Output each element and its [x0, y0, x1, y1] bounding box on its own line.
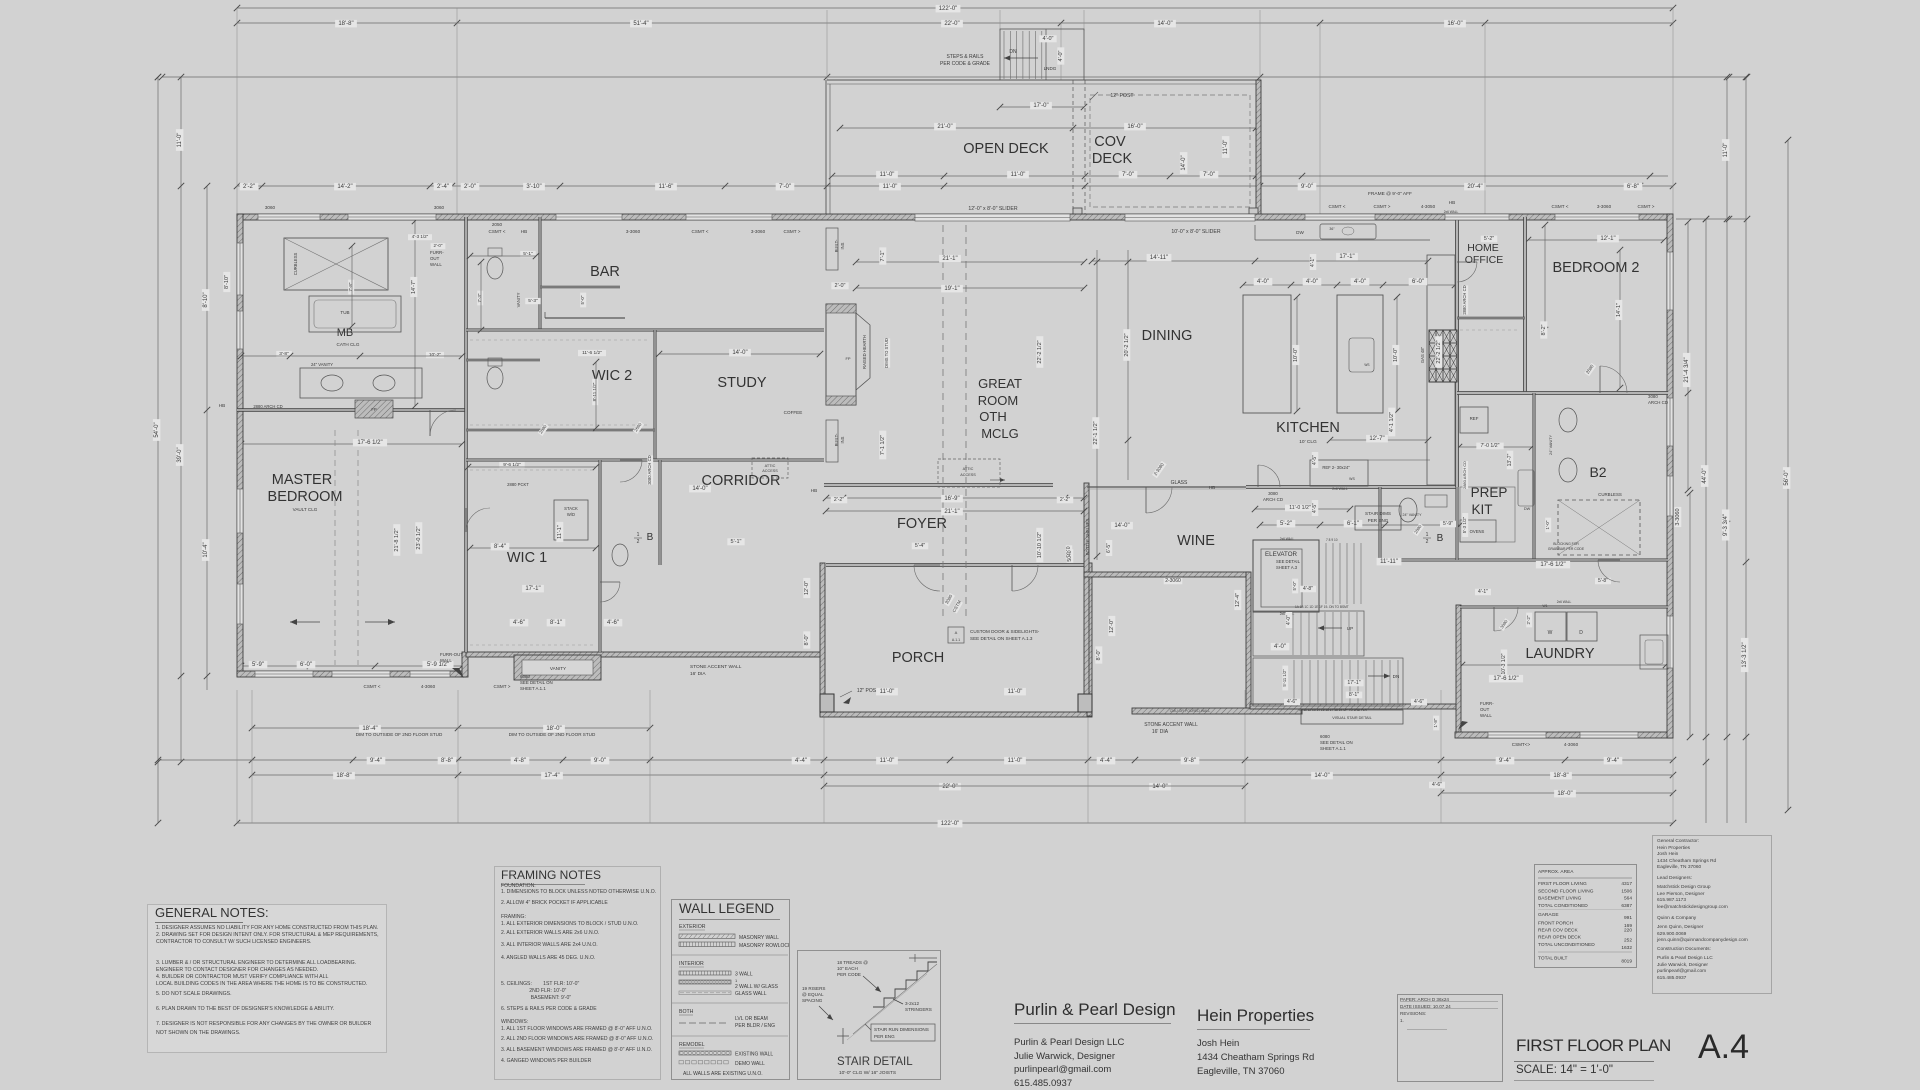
svg-text:2x6 WALL: 2x6 WALL	[1280, 537, 1295, 541]
svg-text:SHEET A.3: SHEET A.3	[1276, 565, 1298, 570]
svg-text:STAIR DIMS: STAIR DIMS	[1365, 511, 1391, 516]
fixture: fridge REF 2-30x24	[1310, 460, 1368, 486]
svg-text:21'-1": 21'-1"	[942, 256, 957, 262]
fixture: master shower with X	[284, 238, 388, 290]
svg-text:17'-1": 17'-1"	[1347, 680, 1360, 686]
svg-text:LVL OR BEAM: LVL OR BEAM	[735, 1016, 768, 1022]
svg-text:14'-0": 14'-0"	[1152, 784, 1167, 790]
svg-text:11'-0 1/2": 11'-0 1/2"	[1289, 505, 1311, 511]
svg-text:DW: DW	[1296, 230, 1304, 235]
svg-text:36": 36"	[1329, 227, 1335, 231]
approx area table	[1534, 864, 1638, 968]
misc right dims	[1595, 578, 1611, 585]
svg-text:4'-1": 4'-1"	[1310, 257, 1316, 267]
wall: corridor south (left wing)	[466, 652, 824, 657]
paper/date/revisions box	[1397, 994, 1503, 1082]
svg-text:10'-3 1/2": 10'-3 1/2"	[1501, 653, 1507, 674]
stair upper-left flight	[1325, 543, 1327, 604]
wall: master bedroom south	[237, 671, 466, 677]
svg-text:14'-0": 14'-0"	[1181, 155, 1187, 170]
fixture: prep sink + dw	[1518, 470, 1534, 506]
svg-text:6'-5": 6'-5"	[1106, 543, 1112, 553]
svg-text:HB: HB	[811, 488, 817, 493]
svg-text:OUT: OUT	[1480, 707, 1490, 712]
attic access corridor	[752, 458, 788, 478]
svg-text:12" POST: 12" POST	[1110, 93, 1134, 99]
svg-text:9'-0": 9'-0"	[594, 758, 606, 764]
vault direction arrows	[290, 621, 320, 623]
svg-text:REAR COV DECK: REAR COV DECK	[1538, 928, 1579, 934]
svg-text:12'-0": 12'-0"	[1109, 619, 1115, 633]
svg-text:19 RISERS: 19 RISERS	[802, 986, 826, 991]
svg-text:10'-2": 10'-2"	[429, 352, 442, 358]
stair runs	[1253, 611, 1364, 656]
svg-text:7'-1 1/2": 7'-1 1/2"	[880, 435, 886, 455]
svg-text:CMU OR POURED WALL: CMU OR POURED WALL	[1170, 709, 1211, 713]
svg-text:2x6 WALL: 2x6 WALL	[1444, 210, 1459, 214]
svg-text:3060: 3060	[434, 205, 445, 210]
windows: laundry south wall	[1488, 732, 1546, 738]
great room dims	[856, 261, 1084, 263]
left wing interior dim chain lines	[241, 443, 462, 445]
svg-text:1: 1	[1426, 532, 1429, 538]
svg-text:252: 252	[1624, 938, 1632, 944]
svg-text:FP: FP	[845, 356, 850, 361]
svg-text:WALL: WALL	[1480, 713, 1492, 718]
svg-text:4-3060: 4-3060	[421, 684, 436, 689]
svg-text:4'-0": 4'-0"	[1257, 279, 1269, 285]
svg-text:RAISED HEARTH: RAISED HEARTH	[862, 335, 867, 369]
svg-text:10'-0": 10'-0"	[1293, 348, 1299, 362]
svg-text:4'-0": 4'-0"	[1058, 50, 1064, 61]
svg-text:CURBLESS: CURBLESS	[1598, 492, 1622, 497]
wall: patio west (below wine)	[1084, 577, 1089, 710]
svg-text:REAR OPEN DECK: REAR OPEN DECK	[1538, 935, 1582, 941]
svg-text:22'-0": 22'-0"	[944, 21, 959, 27]
svg-text:8'-4": 8'-4"	[494, 544, 506, 550]
kitchen dining dim chain lines	[1092, 260, 1428, 262]
stair dims per eng box	[1355, 506, 1401, 530]
laundry dims	[1475, 589, 1491, 596]
svg-text:DW: DW	[1524, 507, 1531, 511]
fixture: master vanity two sinks	[300, 368, 422, 398]
svg-text:W: W	[1548, 630, 1553, 636]
svg-text:FIRST FLOOR LIVING: FIRST FLOOR LIVING	[1538, 881, 1587, 887]
wall: corridor north y=460	[466, 459, 824, 461]
svg-text:4'-8": 4'-8"	[514, 758, 526, 764]
svg-text:DN: DN	[1393, 674, 1400, 679]
svg-text:5'-2": 5'-2"	[1484, 236, 1494, 242]
svg-text:BEDROOM 2: BEDROOM 2	[1552, 260, 1639, 276]
svg-text:4'-0": 4'-0"	[1274, 644, 1286, 650]
open deck / cov deck outline	[827, 79, 1258, 81]
svg-text:4'-0": 4'-0"	[1306, 279, 1318, 285]
svg-text:21'-0": 21'-0"	[937, 124, 952, 130]
svg-text:11'-0": 11'-0"	[1011, 172, 1026, 178]
wall: porch south	[820, 712, 1092, 717]
dimension line: left vertical chain outer	[157, 77, 159, 823]
svg-text:UP: UP	[1347, 626, 1353, 631]
svg-text:10'-0" CLG W/ 16" JOISTS: 10'-0" CLG W/ 16" JOISTS	[839, 1070, 896, 1076]
svg-text:5'-9": 5'-9"	[1443, 521, 1453, 527]
right wing vertical dim bedroom2 east	[1433, 716, 1439, 731]
svg-text:2: 2	[1426, 539, 1429, 545]
svg-text:12'-7": 12'-7"	[1369, 436, 1384, 442]
svg-text:COFFEE: COFFEE	[784, 410, 803, 415]
svg-text:CSMT <: CSMT <	[489, 229, 506, 234]
wall: wic1 east x=600	[599, 460, 601, 652]
svg-text:DEMO WALL: DEMO WALL	[735, 1061, 765, 1067]
svg-text:14'-1": 14'-1"	[1616, 303, 1622, 317]
dimension line: top row 2 segments	[237, 22, 1673, 24]
svg-text:8'-0": 8'-0"	[1096, 649, 1102, 660]
svg-text:PORCH: PORCH	[892, 650, 944, 666]
general notes block	[147, 904, 387, 1053]
svg-text:SEE DETAIL ON SHEET A.1.3: SEE DETAIL ON SHEET A.1.3	[970, 636, 1033, 641]
dimension line: overall depth reference at y=77	[162, 76, 1747, 78]
svg-text:CSMT <: CSMT <	[1329, 204, 1346, 209]
svg-text:INS: INS	[840, 436, 845, 443]
svg-text:2'-4": 2'-4"	[437, 184, 449, 190]
svg-text:MASTER: MASTER	[272, 472, 332, 488]
svg-text:VANITY: VANITY	[550, 666, 566, 671]
svg-text:2'-2": 2'-2"	[834, 497, 844, 503]
svg-text:14'-0": 14'-0"	[1157, 21, 1172, 27]
svg-text:5'-4": 5'-4"	[915, 543, 925, 549]
svg-text:11'-0": 11'-0"	[1008, 689, 1023, 695]
svg-text:CURBLESS: CURBLESS	[293, 253, 298, 276]
svg-text:WALL: WALL	[430, 262, 442, 267]
svg-text:5'-0": 5'-0"	[1292, 581, 1297, 590]
svg-text:EXTERIOR: EXTERIOR	[679, 924, 706, 930]
svg-text:18'-0": 18'-0"	[1557, 791, 1572, 797]
svg-text:4'-0": 4'-0"	[1286, 615, 1292, 625]
svg-text:DIM TO OUTSIDE OF 2ND FLOOR ST: DIM TO OUTSIDE OF 2ND FLOOR STUD	[356, 732, 443, 737]
svg-text:3 WALL: 3 WALL	[735, 972, 753, 978]
svg-text:9'-8": 9'-8"	[1184, 758, 1196, 764]
wall: stair south	[1250, 704, 1457, 709]
svg-text:HB: HB	[1209, 485, 1215, 490]
dimension line: left vertical chain 2	[180, 77, 182, 762]
door arcs left wing	[430, 410, 456, 436]
svg-text:44'-0": 44'-0"	[1702, 468, 1708, 483]
svg-text:11'-1": 11'-1"	[557, 525, 563, 539]
svg-text:10" EACH: 10" EACH	[837, 966, 858, 971]
svg-text:WALL: WALL	[440, 658, 452, 663]
svg-text:HB: HB	[1449, 200, 1455, 205]
svg-text:COV: COV	[1094, 134, 1126, 150]
wall: half-bath B x=660	[659, 460, 661, 565]
windows: deck sliders on front wall	[915, 214, 1070, 221]
svg-text:5040: 5040	[1067, 550, 1073, 561]
svg-text:FRONT PORCH: FRONT PORCH	[1538, 921, 1574, 927]
extension lines from plan up to top dims	[236, 8, 238, 214]
svg-text:4'-0": 4'-0"	[1354, 279, 1366, 285]
svg-text:3060: 3060	[265, 205, 276, 210]
custom door note porch	[948, 627, 964, 643]
fixture: kitchen island 1	[1243, 295, 1291, 413]
purlin & pearl design title	[1014, 1000, 1176, 1020]
fixture: prep kit REF and counters	[1460, 407, 1488, 433]
great room dashed ridge lines	[942, 225, 944, 618]
svg-text:12'-1": 12'-1"	[1600, 236, 1615, 242]
svg-text:6080: 6080	[1320, 734, 1330, 739]
svg-text:18'-8": 18'-8"	[1553, 773, 1568, 779]
svg-text:CSMT <: CSMT <	[364, 684, 381, 689]
fixture: half bath toilet	[612, 544, 628, 566]
wall: master suite core x=466	[465, 217, 468, 652]
svg-text:1A 1B 1C 1D 1E 1F 19: 1A 1B 1C 1D 1E 1F 19- DN TO BSMT	[1295, 605, 1349, 609]
svg-text:17'-6 1/2": 17'-6 1/2"	[1493, 676, 1518, 682]
svg-text:5'-0": 5'-0"	[580, 295, 585, 304]
cov deck roof dashed outline	[1090, 95, 1250, 207]
svg-text:@ EQUAL: @ EQUAL	[802, 992, 824, 997]
wall: west exterior	[237, 214, 243, 676]
kitchen dims	[1147, 254, 1172, 262]
windows: west wall	[237, 243, 243, 295]
svg-text:23'-0 1/2": 23'-0 1/2"	[416, 526, 422, 549]
dimension line: bottom row B	[158, 759, 1673, 761]
svg-text:10'-10 1/2": 10'-10 1/2"	[1037, 532, 1043, 558]
svg-text:SHEET A.1.1: SHEET A.1.1	[1320, 746, 1346, 751]
sheet number A.4	[1698, 1028, 1749, 1067]
dimension line: bottom row D	[1441, 792, 1673, 794]
svg-text:7'-0": 7'-0"	[1203, 172, 1215, 178]
svg-text:11'-0": 11'-0"	[883, 184, 898, 190]
svg-text:3080: 3080	[1268, 491, 1278, 496]
svg-text:BEDROOM: BEDROOM	[268, 489, 343, 505]
wall: wic2/study divide x=655	[654, 330, 656, 460]
svg-text:7'-1": 7'-1"	[880, 250, 886, 261]
svg-text:17'-1": 17'-1"	[525, 586, 540, 592]
room label ELEVATOR	[1253, 540, 1319, 612]
svg-text:VANITY: VANITY	[516, 292, 521, 307]
svg-text:CATH CLG: CATH CLG	[337, 342, 360, 347]
bedroom2 dims	[1597, 235, 1619, 243]
svg-text:FOYER: FOYER	[897, 516, 947, 532]
foyer entry double door	[914, 565, 940, 591]
svg-text:21'-8 1/2": 21'-8 1/2"	[394, 528, 400, 551]
svg-text:GLASS WALL: GLASS WALL	[735, 991, 767, 997]
svg-text:CSMT >: CSMT >	[784, 229, 801, 234]
wall: vanity bump-out	[514, 655, 601, 680]
svg-text:DECK: DECK	[1092, 151, 1133, 167]
svg-text:VISUAL STAIR DETAIL: VISUAL STAIR DETAIL	[1332, 716, 1371, 720]
attic access foyer	[938, 459, 1000, 487]
windows: front wall right wing	[1305, 214, 1375, 220]
wall: bath-laundry corridor south	[1380, 559, 1668, 561]
svg-text:39'-0": 39'-0"	[177, 447, 183, 462]
svg-text:FP: FP	[371, 407, 377, 412]
left vertical dim labels	[153, 419, 161, 441]
svg-text:21'-4 3/4": 21'-4 3/4"	[1684, 357, 1690, 382]
svg-text:PER CODE & GRADE: PER CODE & GRADE	[940, 61, 991, 67]
svg-text:4-3050: 4-3050	[1421, 204, 1436, 209]
master bedroom dashed ceiling lines	[334, 430, 336, 665]
svg-text:INTERIOR: INTERIOR	[679, 961, 704, 967]
svg-text:3-3060: 3-3060	[1675, 508, 1681, 525]
svg-text:16'-0": 16'-0"	[1127, 124, 1142, 130]
svg-text:6'-1": 6'-1"	[1347, 521, 1359, 527]
svg-text:6'-8": 6'-8"	[1627, 184, 1639, 190]
svg-text:11'-6 1/2": 11'-6 1/2"	[582, 350, 602, 356]
svg-text:6'-0": 6'-0"	[300, 662, 312, 668]
svg-text:GLASS: GLASS	[1171, 480, 1188, 486]
svg-text:7'-0": 7'-0"	[779, 184, 791, 190]
svg-text:5'-2": 5'-2"	[1280, 521, 1292, 527]
kitchen tall cabinets east	[1427, 255, 1455, 485]
svg-text:STACK: STACK	[564, 506, 578, 511]
svg-text:24" VANITY: 24" VANITY	[311, 362, 333, 367]
svg-text:8'-10": 8'-10"	[203, 292, 209, 307]
svg-text:A: A	[955, 630, 958, 635]
prep kit dims	[1476, 443, 1503, 450]
svg-text:OPEN DECK: OPEN DECK	[963, 141, 1049, 157]
svg-text:CSMT <: CSMT <	[1552, 204, 1569, 209]
svg-text:17'-1": 17'-1"	[1339, 254, 1354, 260]
deck post squares	[1073, 208, 1082, 217]
wall: porch east	[1087, 563, 1092, 716]
svg-text:5'-9": 5'-9"	[252, 662, 264, 668]
svg-text:CSMT <: CSMT <	[692, 229, 709, 234]
svg-text:GARAGE: GARAGE	[1538, 912, 1559, 918]
fireplace great room with raised hearth	[826, 304, 856, 405]
wall: stair west / patio east	[1246, 572, 1251, 709]
wall: laundry north	[1460, 606, 1668, 608]
svg-text:6080: 6080	[520, 674, 530, 679]
svg-text:4317: 4317	[1621, 881, 1632, 887]
svg-text:SECOND FLOOR LIVING: SECOND FLOOR LIVING	[1538, 889, 1594, 895]
svg-text:56'-0": 56'-0"	[1784, 470, 1790, 485]
svg-text:8'-10": 8'-10"	[224, 275, 230, 289]
svg-text:17'-0": 17'-0"	[1033, 103, 1048, 109]
svg-text:PER ENG: PER ENG	[874, 1034, 895, 1039]
svg-text:16' DIA: 16' DIA	[690, 671, 706, 677]
svg-text:TUB: TUB	[340, 310, 349, 315]
svg-text:W1: W1	[1542, 604, 1547, 608]
svg-text:WS: WS	[1364, 363, 1369, 367]
svg-text:REMODEL: REMODEL	[679, 1042, 705, 1048]
svg-text:INS: INS	[840, 242, 845, 249]
stair arrows and labels	[1318, 627, 1342, 629]
svg-text:ARCH CD: ARCH CD	[1263, 497, 1283, 502]
svg-text:4'-6": 4'-6"	[607, 620, 619, 626]
svg-text:2'-2": 2'-2"	[243, 184, 255, 190]
deck dim chain lines	[840, 127, 1256, 129]
svg-text:22'-0": 22'-0"	[942, 784, 957, 790]
bath cluster extra dims	[408, 234, 432, 240]
svg-text:14'-0": 14'-0"	[1314, 773, 1329, 779]
deck stair DN arrow and labels	[1004, 57, 1038, 59]
svg-text:CUSTOM DOOR & SIDELIGHTS-: CUSTOM DOOR & SIDELIGHTS-	[970, 629, 1040, 634]
svg-text:2'-2": 2'-2"	[1526, 615, 1531, 624]
svg-text:PER CODE: PER CODE	[837, 972, 861, 977]
deck divider dashed	[1072, 80, 1074, 215]
svg-text:PER BLDR / ENG: PER BLDR / ENG	[735, 1023, 775, 1029]
fixture: gas range grid	[1429, 330, 1457, 382]
wall: kitchen south / wine north glass	[1246, 486, 1457, 489]
svg-text:OUT: OUT	[430, 256, 440, 261]
svg-text:9'-4": 9'-4"	[1607, 758, 1619, 764]
wine dims	[1111, 522, 1133, 530]
svg-text:10 11 12 13 14 15 16 17: 10 11 12 13 14 15 16 17 18 19-UP TO 2ND …	[1299, 708, 1368, 712]
svg-text:14'-7": 14'-7"	[411, 280, 417, 294]
porch dims	[803, 578, 810, 598]
svg-text:REF: REF	[1470, 416, 1479, 421]
svg-text:4'-4": 4'-4"	[1100, 758, 1112, 764]
svg-text:22'-2 1/2": 22'-2 1/2"	[1436, 340, 1442, 363]
dimension line: bottom row A (2nd floor stud)	[252, 727, 650, 729]
svg-text:8'-1": 8'-1"	[1349, 692, 1359, 698]
svg-text:16'-0": 16'-0"	[1447, 21, 1462, 27]
svg-text:3-3060: 3-3060	[626, 229, 641, 234]
svg-text:CSMT >: CSMT >	[1638, 204, 1655, 209]
svg-text:18'-8": 18'-8"	[336, 773, 351, 779]
svg-text:12'-0" x 8'-0" SLIDER: 12'-0" x 8'-0" SLIDER	[968, 206, 1017, 212]
svg-text:11'-0": 11'-0"	[177, 133, 183, 148]
svg-text:VAULT CLG: VAULT CLG	[293, 507, 318, 512]
dimension line: right short row at wall corner	[1676, 218, 1747, 220]
svg-text:11'-0": 11'-0"	[1223, 140, 1229, 155]
wall: MB bath south y=410	[237, 409, 466, 412]
svg-text:220: 220	[1624, 928, 1632, 934]
svg-text:12'-0": 12'-0"	[804, 581, 810, 595]
svg-text:BLOCKING FOR: BLOCKING FOR	[1553, 542, 1579, 546]
hein properties title	[1197, 1006, 1314, 1026]
door arc b2 bath	[1598, 560, 1620, 582]
wall: wic2 south closet y=430	[466, 429, 655, 431]
bedroom2 dim chain lines	[1528, 239, 1664, 241]
svg-text:4'-6": 4'-6"	[1414, 699, 1424, 705]
svg-text:13'-7": 13'-7"	[1507, 453, 1513, 466]
svg-text:2'-0": 2'-0"	[464, 184, 476, 190]
svg-text:17'-6 1/2": 17'-6 1/2"	[357, 440, 382, 446]
svg-text:B2: B2	[1589, 464, 1606, 480]
dimension line: bottom overall 122'-0	[237, 822, 1673, 824]
svg-text:DINING: DINING	[1142, 328, 1193, 344]
svg-text:STRINGERS: STRINGERS	[905, 1007, 932, 1012]
wall: east exterior	[1667, 214, 1673, 738]
svg-text:LAUNDRY: LAUNDRY	[1525, 646, 1594, 662]
wall: foyer south / porch north	[826, 564, 1087, 567]
svg-text:STAIR DETAIL: STAIR DETAIL	[837, 1056, 913, 1068]
svg-text:2x6 WALL: 2x6 WALL	[1557, 600, 1572, 604]
svg-text:4'-3 1/2": 4'-3 1/2"	[412, 234, 429, 239]
svg-text:ROOM: ROOM	[978, 393, 1018, 408]
wall: half bath west	[1379, 487, 1381, 560]
svg-text:STONE ACCENT WALL: STONE ACCENT WALL	[690, 664, 742, 670]
svg-text:5'-1": 5'-1"	[731, 539, 742, 545]
svg-text:11'-11": 11'-11"	[1380, 559, 1398, 565]
wall: wine south	[1084, 572, 1249, 577]
svg-text:1'-8": 1'-8"	[1433, 718, 1438, 727]
svg-text:2880 ARCH CD: 2880 ARCH CD	[1462, 461, 1467, 489]
wall: porch west	[820, 563, 825, 716]
kitchen north counter and sink	[1255, 239, 1430, 241]
svg-text:3-3060: 3-3060	[751, 229, 766, 234]
svg-text:1506: 1506	[1621, 889, 1632, 895]
svg-text:1632: 1632	[1621, 945, 1632, 951]
svg-text:SEE DETAIL ON: SEE DETAIL ON	[520, 680, 553, 685]
dimension line: overall width 122'-0 (top row 1)	[237, 7, 1673, 9]
svg-text:EXISTING WALL: EXISTING WALL	[735, 1052, 773, 1058]
svg-text:2880 ARCH CD: 2880 ARCH CD	[1462, 285, 1467, 314]
svg-text:OVENS: OVENS	[1470, 529, 1485, 534]
svg-text:HOME: HOME	[1467, 242, 1499, 254]
svg-text:991: 991	[1624, 915, 1632, 921]
svg-text:4'-4": 4'-4"	[795, 758, 807, 764]
half bath fixtures	[1399, 498, 1417, 522]
